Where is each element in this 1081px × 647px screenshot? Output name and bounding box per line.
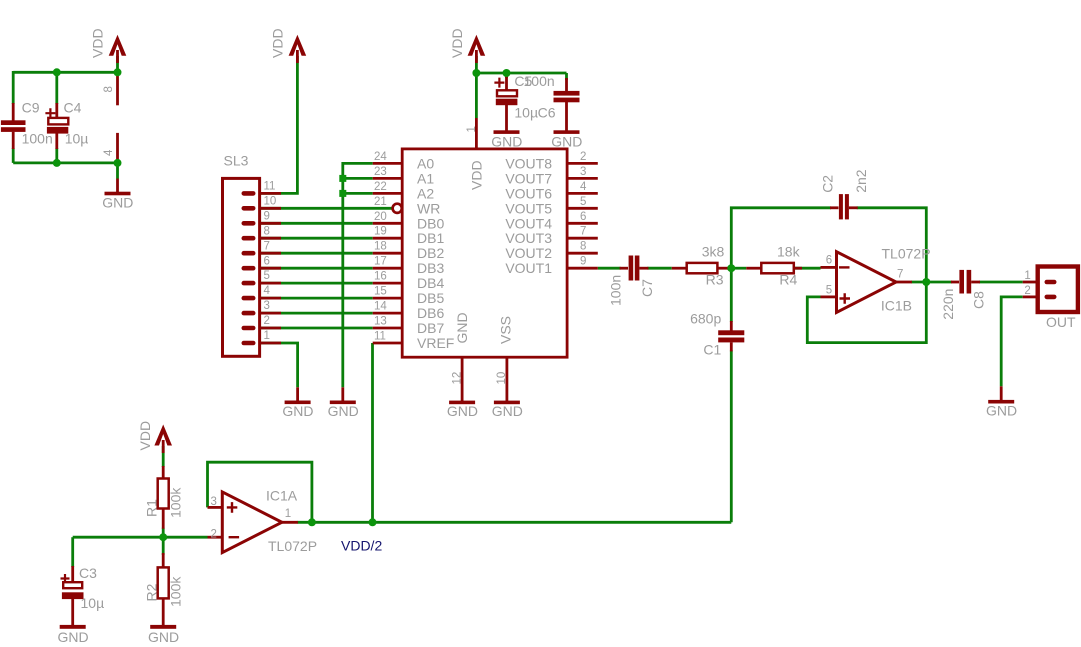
pin stub C9 top (12, 103, 15, 121)
svg-text:100n: 100n (608, 275, 624, 306)
svg-text:GND: GND (148, 629, 179, 645)
pin stub R2 bottom to GND (162, 597, 165, 626)
svg-text:VOUT3: VOUT3 (505, 230, 552, 246)
capacitor C5 plates (polarized) (497, 90, 517, 96)
svg-text:DB4: DB4 (417, 275, 444, 291)
wire OUT pin2 to GND (1001, 297, 1023, 386)
wire C9 riser bottom (12, 148, 15, 163)
svg-text:2: 2 (211, 529, 217, 541)
wire C3 riser (71, 537, 74, 567)
capacitor C9 plates (1, 120, 26, 125)
capacitor C2 plates (839, 194, 843, 219)
wire A1 net (343, 177, 373, 180)
pin stub VDD arrow 4 to R1 (162, 466, 165, 480)
svg-text:IC1A: IC1A (266, 488, 298, 504)
svg-text:GND: GND (282, 403, 313, 419)
svg-text:1: 1 (264, 330, 270, 342)
svg-text:GND: GND (102, 195, 133, 211)
wire inverting input rail C3 to IC1A pin2 (73, 536, 208, 539)
svg-text:DB3: DB3 (417, 260, 444, 276)
pin stub C7 left (620, 267, 628, 270)
pin stub GND top-left (116, 179, 119, 194)
wire DB3 net SL3 pin6 (260, 267, 373, 270)
capacitor C7 plates (629, 256, 634, 281)
svg-text:VOUT7: VOUT7 (505, 170, 552, 186)
pin stub C5 top (505, 76, 508, 91)
wire C9 riser top (12, 71, 15, 104)
minus sign IC1A pin2 (229, 536, 240, 538)
plus sign C3 (61, 574, 70, 583)
node IC1A output (308, 518, 316, 526)
svg-text:19: 19 (374, 226, 387, 238)
svg-text:DB5: DB5 (417, 290, 444, 306)
supply VDD symbol 4 (above R1) (154, 425, 172, 446)
svg-text:23: 23 (374, 166, 387, 178)
pin stub VDD arrow 3 (475, 50, 478, 63)
svg-text:C7: C7 (639, 279, 655, 297)
connector SL3 body (223, 178, 260, 356)
svg-text:VDD: VDD (270, 28, 286, 58)
svg-text:GND: GND (551, 133, 582, 149)
pin stub R4 left (746, 267, 761, 270)
svg-text:GND: GND (986, 402, 1017, 418)
ground symbol G5 (A0-A2) (330, 401, 356, 405)
wire DB1 net SL3 pin8 (260, 237, 373, 240)
svg-text:14: 14 (374, 301, 387, 313)
ground symbol G6 (DAC pin12) (449, 401, 475, 405)
wire VDD top-left to C9/C4/pin8 rail (13, 71, 117, 74)
node VREF tap (369, 518, 377, 526)
svg-text:TL072P: TL072P (268, 538, 317, 554)
node R1/R2 divider (159, 533, 167, 541)
pin stub IC1A pin1 output (282, 521, 298, 524)
capacitor C3 plates (polarized) (63, 582, 82, 588)
svg-text:1: 1 (1024, 270, 1030, 282)
svg-text:7: 7 (897, 269, 903, 281)
svg-text:8: 8 (264, 225, 270, 237)
svg-text:9: 9 (580, 256, 586, 268)
svg-text:3: 3 (580, 166, 586, 178)
svg-text:IC1B: IC1B (881, 298, 912, 314)
wire C7 to R3 (647, 267, 671, 270)
wire DB5 net SL3 pin4 (260, 297, 373, 300)
resistor R3 body (687, 263, 718, 273)
svg-text:C8: C8 (971, 291, 987, 309)
SL3 pin bars 11..1 (242, 191, 256, 196)
node C5 tap (503, 69, 511, 77)
wire C4 riser bottom (55, 148, 58, 163)
svg-text:10: 10 (264, 195, 277, 207)
svg-text:C2: C2 (819, 175, 835, 193)
wire GND drop top-left (116, 163, 119, 179)
svg-text:R4: R4 (779, 272, 797, 288)
svg-text:TL072P: TL072P (882, 246, 931, 262)
svg-text:R1: R1 (144, 499, 160, 517)
pin stub A-lines GND (341, 387, 344, 402)
pin stub C9 bottom (12, 132, 15, 149)
pin stubs SL3 right side (260, 192, 281, 195)
svg-text:5: 5 (580, 196, 586, 208)
wire R1 to inverting rail (162, 528, 165, 538)
connector OUT pin bar 1 (1045, 280, 1057, 285)
svg-text:A1: A1 (417, 170, 434, 186)
node C4 top (53, 68, 61, 76)
pin stub C5 bottom to GND (505, 104, 508, 132)
node DAC pin1 VDD (472, 69, 480, 77)
svg-text:DB0: DB0 (417, 215, 444, 231)
ground symbol G2 (C5) (494, 130, 520, 134)
svg-text:WR: WR (417, 200, 440, 216)
resistor R2 body (158, 567, 169, 598)
svg-text:6: 6 (264, 255, 270, 267)
pin stub C2 left (830, 206, 839, 209)
svg-text:SL3: SL3 (224, 153, 249, 169)
wire C8 to OUT pin1 (979, 281, 1023, 284)
node A1 junction (339, 175, 346, 182)
wire R4 to IC1B pin6 (794, 267, 821, 270)
svg-text:18k: 18k (777, 244, 801, 260)
pin stubs DAC right pins 2-9 (567, 162, 598, 165)
svg-text:220n: 220n (940, 289, 956, 320)
svg-text:DB2: DB2 (417, 245, 444, 261)
pin stub C2 right (849, 206, 858, 209)
wire GND rail bottom of C9/C4 (13, 161, 117, 164)
ground symbol G7 (DAC pin10) (494, 401, 520, 405)
pin stub R3 right (717, 267, 728, 270)
svg-text:VOUT6: VOUT6 (505, 185, 552, 201)
svg-text:8: 8 (103, 86, 115, 92)
pin stubs DAC left pins 24-13 (373, 162, 403, 165)
capacitor C1 plates (718, 330, 744, 335)
svg-text:10µ: 10µ (65, 131, 89, 147)
wire node A down to C1 (730, 268, 733, 322)
svg-text:C6: C6 (538, 105, 556, 121)
wire DB2 net SL3 pin7 (260, 252, 373, 255)
svg-text:3k8: 3k8 (702, 244, 725, 260)
svg-text:VDD: VDD (469, 160, 485, 190)
svg-text:A2: A2 (417, 185, 434, 201)
wire IC1B output to node B (911, 281, 952, 284)
plus sign C4 (45, 108, 55, 118)
wire A2 net (343, 192, 373, 195)
svg-text:VREF: VREF (417, 335, 454, 351)
svg-text:C3: C3 (79, 565, 97, 581)
ground symbol G3 (C6) (554, 130, 580, 134)
pin stub C8 left (951, 281, 959, 284)
node pin8/VDD (114, 68, 122, 76)
svg-text:DB7: DB7 (417, 320, 444, 336)
svg-text:4: 4 (103, 149, 115, 156)
svg-text:8: 8 (580, 241, 586, 253)
pin stub OUT GND (1000, 386, 1003, 401)
wire C4 riser top (55, 72, 58, 104)
capacitor C6 plates (554, 91, 580, 96)
plus sign C5 (494, 78, 504, 88)
pin stub DAC pin1 VDD (475, 118, 478, 149)
svg-text:C4: C4 (64, 100, 82, 116)
resistor R1 body (158, 479, 169, 509)
wire node A up to C2 (731, 208, 831, 268)
supply VDD symbol 1 (top-left) (109, 35, 127, 56)
pin stub VDD arrow 4 (162, 440, 165, 453)
pin 21 WR inverted bubble (393, 204, 402, 213)
ground symbol G1 (top-left block) (105, 192, 131, 196)
svg-text:VOUT4: VOUT4 (505, 215, 552, 231)
supply VDD symbol 2 (above SL3) (289, 35, 307, 56)
svg-text:24: 24 (374, 151, 387, 163)
svg-text:VDD: VDD (89, 28, 105, 58)
svg-text:GND: GND (58, 629, 89, 645)
pin stub DAC pin10 VSS (505, 357, 508, 402)
svg-text:3: 3 (211, 496, 217, 508)
pin stub VDD arrow 1 (116, 50, 119, 63)
pin stub C6 top (565, 78, 568, 92)
svg-text:21: 21 (374, 196, 387, 208)
svg-text:DB1: DB1 (417, 230, 444, 246)
pin stub VDD arrow 2 (296, 50, 299, 63)
wire IC1A feedback loop (208, 462, 312, 522)
ground symbol G8 (OUT pin2) (988, 400, 1014, 404)
svg-text:100n: 100n (22, 131, 53, 147)
svg-text:10µ: 10µ (81, 595, 105, 611)
pin stub C8 right (971, 281, 980, 284)
svg-text:2: 2 (264, 315, 270, 327)
svg-text:C9: C9 (22, 100, 40, 116)
wire C1 to VDD/2 rail (730, 350, 733, 522)
svg-text:10: 10 (496, 372, 508, 385)
svg-text:5: 5 (264, 270, 270, 282)
svg-text:3: 3 (264, 300, 270, 312)
svg-text:20: 20 (374, 211, 387, 223)
ground symbol G4 (SL3 pin1) (285, 401, 311, 405)
wire C5 riser top (505, 73, 508, 78)
wire VDD arrow stub top-left (116, 56, 119, 72)
svg-text:DB6: DB6 (417, 305, 444, 321)
resistor R4 body (761, 263, 794, 273)
pin stub C3 top (71, 566, 74, 583)
ground symbol G10 (R2) (150, 625, 176, 629)
wire R2 top pin (162, 537, 165, 555)
plus sign IC1B pin5 (840, 293, 851, 304)
pin stub IC1A pin2 (208, 536, 223, 539)
svg-text:11: 11 (264, 181, 276, 193)
pin stub C1 top (730, 321, 733, 331)
svg-text:VDD: VDD (449, 28, 465, 58)
pin stub DAC pin12 GND (461, 357, 464, 402)
op-amp IC1B triangle (837, 252, 897, 313)
svg-text:4: 4 (580, 181, 587, 193)
wire VOUT1 to C7 (598, 267, 621, 270)
node A (R3/R4/C1/C2) (727, 264, 735, 272)
op-amp IC1A triangle (222, 492, 282, 553)
svg-text:11: 11 (374, 331, 386, 343)
wire VDD/2 rail (298, 521, 732, 524)
pin stub C3 bottom to GND (71, 599, 74, 627)
node C4 bottom (53, 159, 61, 167)
pin stub C7 right (639, 267, 648, 270)
svg-text:R3: R3 (706, 272, 724, 288)
svg-text:6: 6 (580, 211, 586, 223)
svg-text:680p: 680p (690, 311, 721, 327)
svg-text:100k: 100k (168, 487, 184, 518)
svg-text:GND: GND (454, 312, 470, 343)
ground symbol G9 (C3) (60, 625, 86, 629)
pin stub IC1B pin5 (821, 295, 837, 298)
IC DAC body (402, 149, 567, 357)
svg-text:VSS: VSS (498, 316, 514, 344)
wire node A to R4 (731, 267, 746, 270)
svg-text:C1: C1 (703, 342, 721, 358)
wire VDD arrow to R1 (162, 446, 165, 467)
svg-text:R2: R2 (144, 583, 160, 601)
svg-text:GND: GND (447, 403, 478, 419)
svg-text:GND: GND (491, 133, 522, 149)
svg-text:9: 9 (264, 210, 270, 222)
supply VDD symbol 3 (above DAC) (468, 35, 486, 56)
connector OUT body (1038, 267, 1078, 313)
svg-text:17: 17 (374, 256, 387, 268)
pin stub R2 top (162, 553, 165, 568)
wire DB6 net SL3 pin3 (260, 312, 373, 315)
svg-text:VOUT2: VOUT2 (505, 245, 552, 261)
svg-text:13: 13 (374, 316, 387, 328)
svg-text:4: 4 (264, 285, 271, 297)
wire DAC pin1 VDD stub (475, 56, 478, 118)
svg-text:22: 22 (374, 181, 387, 193)
pin 4 IC1 power stub (116, 133, 119, 163)
svg-text:VDD: VDD (137, 421, 153, 451)
pin stub DAC VREF pin 11 (373, 342, 403, 345)
wire C6 riser top (565, 73, 568, 80)
connector OUT pin bar 2 (1045, 295, 1057, 300)
svg-text:GND: GND (328, 403, 359, 419)
node A2 junction (339, 190, 346, 197)
svg-text:2: 2 (580, 151, 586, 163)
wire WR net SL3 pin10 (260, 207, 393, 210)
capacitor C8 plates (959, 270, 964, 294)
svg-text:OUT: OUT (1046, 314, 1076, 330)
svg-text:2: 2 (1024, 285, 1030, 297)
node pin4/GND (114, 159, 122, 167)
svg-text:GND: GND (492, 403, 523, 419)
pin stub IC1A pin3 (208, 506, 223, 509)
wire R3 to node A (727, 267, 731, 270)
pin stub SL3 pin1 GND (296, 387, 299, 402)
svg-text:1: 1 (285, 508, 291, 520)
svg-text:15: 15 (374, 286, 387, 298)
pin stub R3 left (672, 267, 687, 270)
pin stub C4 top (55, 103, 58, 119)
pin stub R1 bottom (162, 508, 165, 529)
wire DB0 net SL3 pin9 (260, 222, 373, 225)
wire VDD rail above DAC (476, 72, 566, 75)
svg-text:12: 12 (451, 372, 463, 385)
svg-text:2n2: 2n2 (853, 169, 869, 193)
pin stub C6 bottom to GND (565, 101, 568, 132)
svg-text:A0: A0 (417, 155, 434, 171)
pin stub OUT pin1 (1023, 281, 1038, 284)
pin stub C4 bottom (55, 133, 58, 149)
pin stub R4 right (794, 267, 802, 270)
svg-text:18: 18 (374, 241, 387, 253)
minus sign IC1B pin6 (839, 266, 850, 268)
svg-text:VOUT8: VOUT8 (505, 155, 552, 171)
svg-text:VOUT1: VOUT1 (505, 260, 552, 276)
capacitor C4 plates (polarized) (48, 118, 68, 125)
node B (IC1B output) (922, 278, 930, 286)
svg-text:1: 1 (466, 126, 478, 132)
svg-text:100n: 100n (524, 73, 555, 89)
svg-text:7: 7 (580, 226, 586, 238)
wire DB4 net SL3 pin5 (260, 282, 373, 285)
svg-text:VOUT5: VOUT5 (505, 200, 552, 216)
wire A0 net to GND riser (343, 163, 373, 387)
pin stub IC1B pin7 output (896, 281, 912, 284)
svg-text:16: 16 (374, 271, 387, 283)
wire VREF riser to VDD/2 rail (371, 343, 374, 522)
pin stub C1 bottom (730, 342, 733, 351)
pin 8 IC1 power stub (116, 74, 119, 105)
wire DB7 net SL3 pin2 (260, 327, 373, 330)
pin stub IC1B pin6 (821, 266, 837, 269)
svg-text:6: 6 (826, 255, 832, 267)
wire IC1B pin5 feedback loop (807, 282, 926, 343)
svg-text:VDD/2: VDD/2 (341, 538, 382, 554)
wire VDD riser to SL3 pin 11 (260, 56, 298, 193)
svg-text:7: 7 (264, 240, 270, 252)
pin stub OUT pin2 (1023, 295, 1038, 298)
svg-text:100k: 100k (168, 576, 184, 607)
svg-text:10µ: 10µ (514, 105, 538, 121)
plus sign IC1A pin3 (227, 502, 238, 513)
svg-text:5: 5 (826, 285, 832, 297)
wire C2 to output node (857, 208, 927, 282)
wire SL3 pin1 to GND (260, 343, 298, 387)
